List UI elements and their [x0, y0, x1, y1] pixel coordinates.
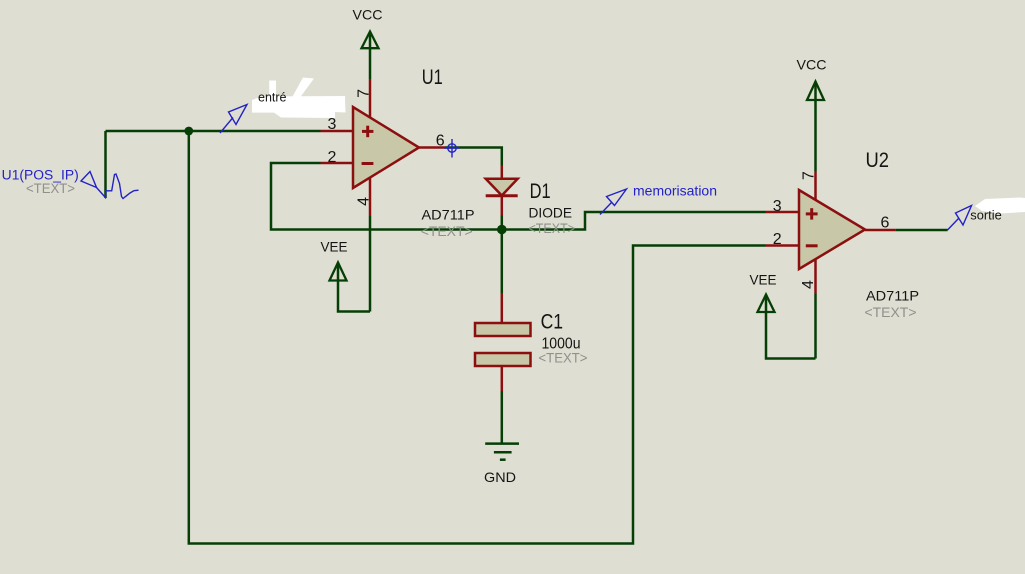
svg-text:GND: GND [484, 469, 516, 485]
svg-text:3: 3 [328, 116, 337, 133]
svg-text:7: 7 [800, 171, 817, 180]
svg-text:4: 4 [356, 197, 373, 206]
svg-text:U2: U2 [866, 149, 890, 172]
svg-text:AD711P: AD711P [866, 287, 919, 303]
svg-text:sortie: sortie [970, 208, 1002, 223]
svg-text:6: 6 [881, 215, 890, 232]
svg-text:<TEXT>: <TEXT> [529, 220, 576, 236]
svg-text:U1: U1 [422, 66, 443, 89]
svg-text:memorisation: memorisation [633, 182, 717, 198]
svg-text:<TEXT>: <TEXT> [539, 350, 588, 366]
svg-text:VEE: VEE [750, 271, 777, 287]
svg-text:U1(POS_IP): U1(POS_IP) [2, 168, 79, 183]
svg-text:VEE: VEE [321, 239, 348, 255]
svg-text:2: 2 [328, 149, 337, 166]
svg-text:4: 4 [800, 280, 817, 289]
svg-text:AD711P: AD711P [422, 207, 475, 223]
svg-text:entré: entré [258, 90, 287, 104]
svg-text:<TEXT>: <TEXT> [421, 223, 473, 239]
svg-text:C1: C1 [541, 311, 564, 334]
svg-text:2: 2 [773, 231, 782, 248]
svg-text:<TEXT>: <TEXT> [865, 304, 917, 320]
svg-text:VCC: VCC [353, 7, 383, 23]
svg-text:VCC: VCC [797, 56, 827, 72]
svg-text:3: 3 [773, 198, 782, 215]
svg-text:6: 6 [436, 133, 445, 150]
svg-text:DIODE: DIODE [529, 205, 573, 221]
svg-text:7: 7 [355, 89, 372, 98]
svg-text:D1: D1 [530, 180, 551, 203]
